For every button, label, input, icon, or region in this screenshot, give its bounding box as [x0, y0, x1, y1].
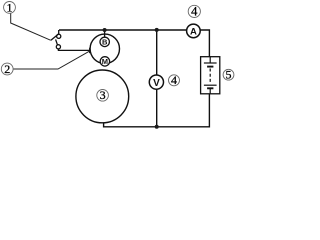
svg-text:2: 2 [4, 62, 10, 76]
wire stub from dot to B terminal [104, 30, 106, 37]
terminal tick on solenoid [89, 48, 91, 54]
svg-text:B: B [102, 38, 108, 47]
svg-text:3: 3 [100, 88, 106, 102]
callout 1 circle [4, 2, 16, 14]
voltmeter V circle [149, 75, 163, 89]
battery top stub [209, 57, 211, 63]
svg-text:M: M [102, 57, 108, 66]
switch blade [51, 34, 58, 40]
switch blade link [56, 39, 58, 44]
ammeter A circle [187, 24, 201, 38]
battery minus plate top [207, 66, 213, 68]
svg-text:4: 4 [171, 73, 177, 87]
terminal B circle [100, 37, 109, 46]
terminal M circle [100, 57, 109, 66]
battery dashed cells [209, 69, 211, 83]
svg-text:V: V [153, 78, 160, 89]
battery bottom stub [209, 88, 211, 94]
junction dot top V branch [155, 28, 159, 32]
junction dot bottom V branch [155, 125, 159, 129]
battery plus plate bottom [204, 84, 217, 86]
solenoid U2 outer circle [90, 34, 119, 63]
svg-text:4: 4 [191, 5, 198, 19]
switch S1 lower terminal [56, 45, 60, 49]
callout 4 circle near V [169, 75, 180, 86]
callout 5 circle [223, 69, 234, 80]
callout 4 circle above A [188, 5, 200, 17]
junction dot at B branch [103, 28, 107, 32]
wire voltmeter branch vertical [156, 30, 158, 127]
svg-text:5: 5 [226, 68, 232, 82]
battery minus plate bottom [207, 87, 213, 89]
battery plus plate top [204, 62, 217, 64]
battery BT1 box [201, 57, 220, 94]
wire top horizontal from switch to battery corner [59, 30, 209, 57]
callout 2 circle [1, 63, 13, 75]
wire switch lower stub and run to solenoid [58, 49, 89, 51]
switch S1 upper terminal [57, 34, 61, 38]
callout 1 leader [11, 13, 51, 40]
svg-text:A: A [190, 26, 197, 37]
motor M1 outer circle [76, 70, 129, 123]
svg-text:1: 1 [7, 0, 13, 14]
wire switch upper stub [58, 30, 60, 34]
wire motor bottom stub and bottom run to battery [104, 94, 210, 127]
callout 2 leader [13, 51, 89, 69]
callout 3 circle [97, 90, 109, 102]
